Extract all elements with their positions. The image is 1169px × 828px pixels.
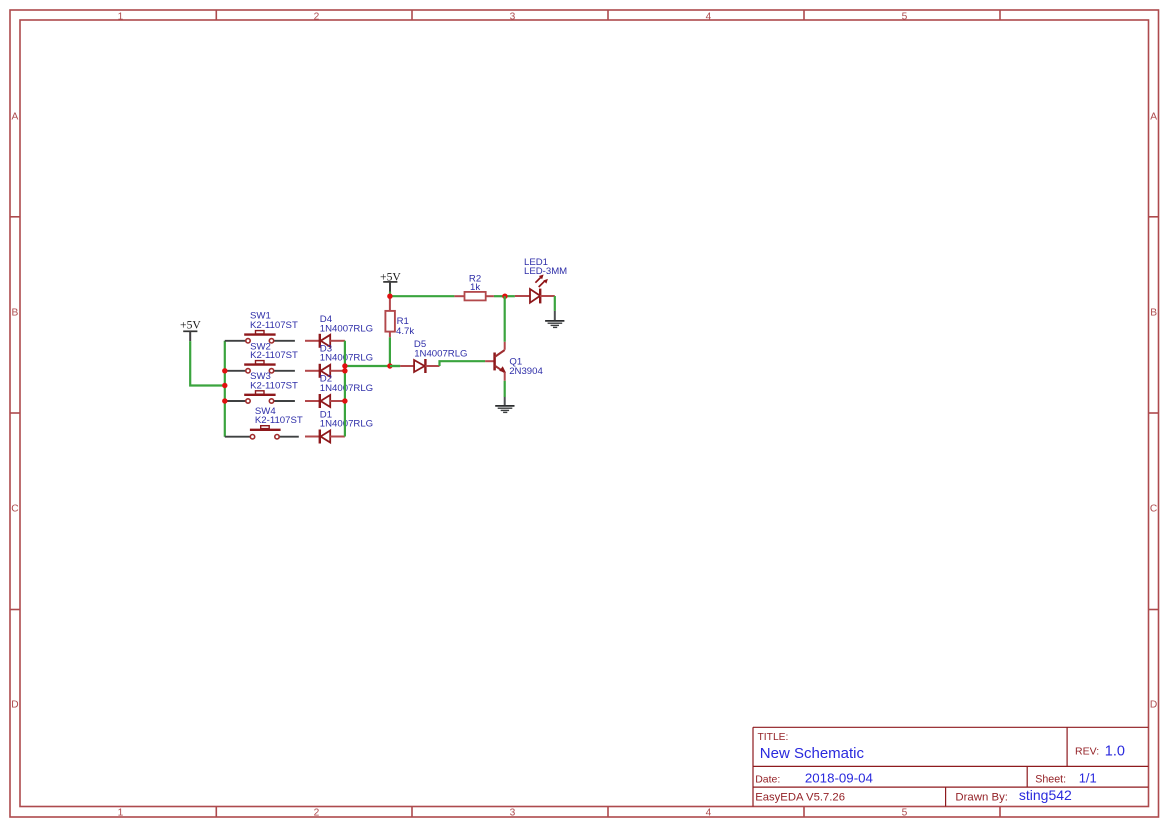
junction dot right bus D2 xyxy=(342,398,347,403)
frame column numbers top xyxy=(118,11,908,22)
svg-text:1N4007RLG: 1N4007RLG xyxy=(414,348,467,359)
label SW1 xyxy=(250,311,298,331)
wire D5 to base xyxy=(440,361,486,366)
svg-text:3: 3 xyxy=(510,11,516,22)
svg-text:1k: 1k xyxy=(470,282,480,293)
label Q1 xyxy=(509,357,543,378)
svg-text:4.7k: 4.7k xyxy=(396,326,414,337)
frame row ticks left xyxy=(10,217,20,610)
wire left bus vertical xyxy=(224,341,226,437)
title block outline xyxy=(753,727,1148,806)
label SW4 xyxy=(255,406,303,426)
label R1 xyxy=(396,316,414,337)
wire emitter xyxy=(504,381,506,397)
label D5 xyxy=(414,339,468,360)
label D4 xyxy=(320,314,373,334)
frame column ticks top xyxy=(216,10,1000,20)
wire LED right down xyxy=(554,296,556,311)
power flag +5V right xyxy=(380,270,401,291)
svg-text:K2-1107ST: K2-1107ST xyxy=(255,415,303,426)
transistor Q1 xyxy=(485,342,506,381)
svg-text:1N4007RLG: 1N4007RLG xyxy=(320,419,373,430)
junction dot right bus main xyxy=(342,363,347,368)
title block label REV: xyxy=(1075,746,1099,758)
svg-text:sting542: sting542 xyxy=(1019,787,1072,803)
title block label Date: xyxy=(755,773,780,785)
label R2 xyxy=(469,273,481,293)
svg-text:5: 5 xyxy=(902,11,908,22)
svg-text:K2-1107ST: K2-1107ST xyxy=(250,320,298,331)
diode D3 xyxy=(305,364,345,378)
svg-text:+5V: +5V xyxy=(180,319,201,332)
svg-text:LED-3MM: LED-3MM xyxy=(524,266,567,277)
junction dot R1 top xyxy=(387,294,392,299)
svg-text:1.0: 1.0 xyxy=(1105,743,1125,759)
junction dot right bus D3 xyxy=(342,368,347,373)
svg-text:2: 2 xyxy=(314,808,320,819)
svg-text:K2-1107ST: K2-1107ST xyxy=(250,350,298,361)
diode D1 xyxy=(305,430,345,444)
junction dot bus SW2 xyxy=(222,368,227,373)
wire right bus vertical xyxy=(344,341,346,437)
title block value New Schematic xyxy=(760,745,865,762)
wire R2 right xyxy=(494,295,505,297)
resistor R2 xyxy=(454,292,494,301)
title block label Sheet: xyxy=(1035,773,1066,785)
svg-text:1: 1 xyxy=(118,11,124,22)
switch SW3 xyxy=(225,391,295,403)
junction dot R1 bottom xyxy=(387,363,392,368)
power flag +5V left xyxy=(180,319,201,342)
label SW3 xyxy=(250,371,298,391)
title block value 1.0 xyxy=(1105,743,1125,759)
svg-text:EasyEDA V5.7.26: EasyEDA V5.7.26 xyxy=(755,791,845,803)
LED LED1 xyxy=(515,275,555,304)
switch SW1 xyxy=(225,331,295,343)
diode D5 xyxy=(400,359,439,373)
switch SW4 xyxy=(225,426,299,439)
wire top net horizontal left xyxy=(390,295,455,297)
svg-text:1N4007RLG: 1N4007RLG xyxy=(320,352,373,363)
diode D4 xyxy=(305,334,345,348)
svg-text:Drawn By:: Drawn By: xyxy=(955,791,1008,803)
junction dot R2-LED xyxy=(502,294,507,299)
svg-text:TITLE:: TITLE: xyxy=(758,732,789,743)
svg-text:C: C xyxy=(11,503,18,514)
frame column numbers bottom xyxy=(118,808,908,819)
wire LED left xyxy=(505,295,515,297)
label SW2 xyxy=(250,341,298,360)
ground after LED xyxy=(545,311,564,328)
svg-text:2018-09-04: 2018-09-04 xyxy=(805,770,873,785)
svg-text:1N4007RLG: 1N4007RLG xyxy=(320,383,373,394)
wire D5 anode xyxy=(390,365,400,367)
frame row ticks right xyxy=(1149,217,1159,610)
junction dot bus SW3 xyxy=(222,398,227,403)
diode D2 xyxy=(305,394,345,408)
svg-text:3: 3 xyxy=(510,808,516,819)
svg-text:Sheet:: Sheet: xyxy=(1035,773,1066,785)
svg-text:New Schematic: New Schematic xyxy=(760,745,865,762)
svg-text:D: D xyxy=(1150,699,1157,710)
svg-text:4: 4 xyxy=(706,808,712,819)
frame column ticks bottom xyxy=(216,807,1000,818)
title block value 2018-09-04 xyxy=(805,770,873,785)
title block label TITLE: xyxy=(758,732,789,743)
svg-text:5: 5 xyxy=(902,808,908,819)
ground after Q1 xyxy=(495,397,514,412)
junction dot bus +5V feed xyxy=(222,383,227,388)
svg-text:A: A xyxy=(12,111,19,122)
svg-text:1N4007RLG: 1N4007RLG xyxy=(320,323,373,334)
svg-text:K2-1107ST: K2-1107ST xyxy=(250,380,298,391)
wire main horizontal net xyxy=(345,365,400,367)
svg-text:B: B xyxy=(12,307,19,318)
svg-text:REV:: REV: xyxy=(1075,746,1099,758)
label D1 xyxy=(320,409,373,429)
title block label Drawn By: xyxy=(955,791,1008,803)
svg-text:A: A xyxy=(1150,111,1157,122)
frame row letters right xyxy=(1150,111,1157,710)
label LED1 xyxy=(524,257,567,277)
svg-text:2: 2 xyxy=(314,11,320,22)
svg-text:2N3904: 2N3904 xyxy=(509,366,543,377)
svg-text:Date:: Date: xyxy=(755,773,780,785)
title block value 1/1 xyxy=(1079,770,1097,785)
svg-text:1/1: 1/1 xyxy=(1079,770,1097,785)
svg-text:D: D xyxy=(11,699,18,710)
switch SW2 xyxy=(225,361,295,373)
wire collector xyxy=(504,296,506,342)
svg-text:1: 1 xyxy=(118,808,124,819)
wire +5V right stub xyxy=(389,292,391,297)
title block value sting542 xyxy=(1019,787,1072,803)
title block label EasyEDA V5.7.26 xyxy=(755,791,845,803)
wire +5V left vertical xyxy=(190,341,225,385)
wire R1 bottom xyxy=(389,337,391,366)
frame row letters left xyxy=(11,111,18,710)
label D3 xyxy=(320,344,373,364)
svg-text:B: B xyxy=(1150,307,1157,318)
svg-text:C: C xyxy=(1150,503,1157,514)
resistor R1 xyxy=(385,296,395,337)
label D2 xyxy=(320,374,373,394)
svg-text:4: 4 xyxy=(706,11,712,22)
